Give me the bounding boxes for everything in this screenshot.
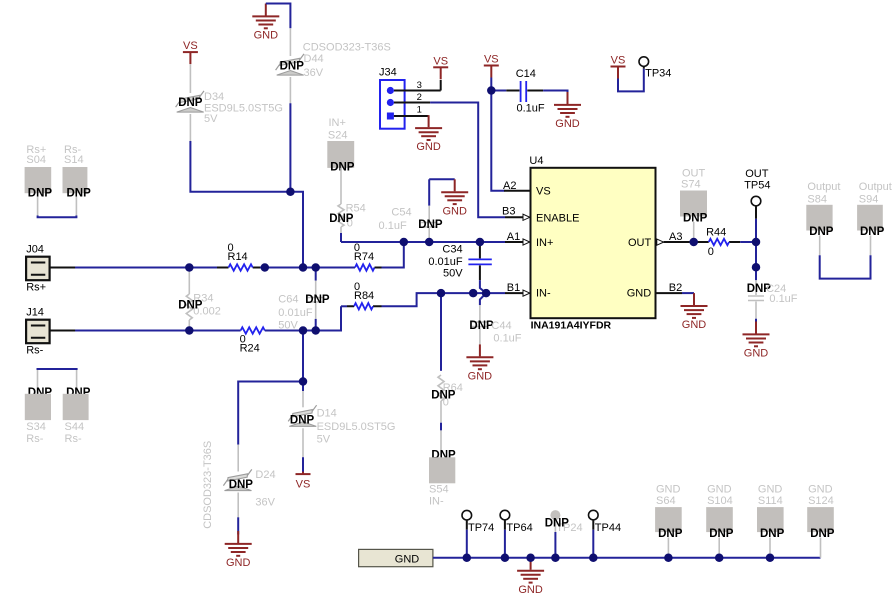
svg-text:0.01uF: 0.01uF <box>428 256 463 268</box>
svg-text:J34: J34 <box>379 66 397 78</box>
svg-text:INA191A4IYFDR: INA191A4IYFDR <box>531 319 612 331</box>
junction dot Rs- row / D-net column <box>299 326 308 335</box>
svg-text:OUT: OUT <box>745 168 769 180</box>
svg-text:TP64: TP64 <box>506 522 532 534</box>
resistor R44 (0) <box>694 227 741 259</box>
svg-text:R74: R74 <box>354 251 374 263</box>
svg-text:0.1uF: 0.1uF <box>769 293 797 305</box>
wire S34-S44 <box>38 369 77 370</box>
svg-text:S104: S104 <box>707 495 733 507</box>
wire VS to TP34 <box>618 69 644 92</box>
svg-text:GND: GND <box>707 484 732 496</box>
capacitor C34 0.01uF 50V <box>428 242 491 280</box>
junction dot D-net <box>299 377 308 386</box>
svg-text:S84: S84 <box>807 194 827 206</box>
svg-text:GND: GND <box>758 484 783 496</box>
connector J04 <box>26 244 49 294</box>
junction dot bus TP74 <box>463 554 472 563</box>
pad S04 (DNP) <box>25 144 53 216</box>
svg-text:5V: 5V <box>317 434 331 446</box>
pad S84 Output (DNP) <box>806 181 840 255</box>
svg-text:GND: GND <box>395 554 420 566</box>
svg-text:Rs-: Rs- <box>26 344 43 356</box>
wire VS down to A2 <box>491 78 504 191</box>
svg-text:Output: Output <box>807 181 840 193</box>
svg-text:U4: U4 <box>529 155 543 167</box>
pad S64 GND (DNP) <box>655 484 683 558</box>
wire Rs+ row left <box>75 267 217 269</box>
svg-text:Rs-: Rs- <box>26 433 43 445</box>
svg-text:GND: GND <box>656 484 681 496</box>
svg-text:50V: 50V <box>278 319 298 331</box>
resistor R34 0.002 (DNP) <box>178 268 221 331</box>
connector J14 <box>26 307 49 357</box>
svg-text:S54: S54 <box>429 484 449 496</box>
svg-text:C44: C44 <box>491 320 511 332</box>
svg-text:D24: D24 <box>255 469 275 481</box>
wire S04-S14 <box>38 216 77 218</box>
svg-text:DNP: DNP <box>290 415 315 427</box>
svg-text:IN-: IN- <box>536 288 551 300</box>
ground (top, net of D44) <box>252 4 279 42</box>
junction dot bus GND <box>526 554 535 563</box>
svg-text:TP34: TP34 <box>645 68 671 80</box>
test point TP64 <box>500 510 533 558</box>
resistor R84 (0) <box>341 281 382 310</box>
svg-text:3: 3 <box>417 80 422 91</box>
wire D44 bottom to junction <box>289 103 291 191</box>
svg-text:R24: R24 <box>240 343 260 355</box>
svg-text:0.1uF: 0.1uF <box>517 103 545 115</box>
svg-text:DNP: DNP <box>28 188 53 200</box>
test point TP24 (DNP) <box>545 510 583 558</box>
svg-text:OUT: OUT <box>628 237 652 249</box>
svg-text:Rs-: Rs- <box>65 433 82 445</box>
junction dot A1 row / R74 <box>400 238 409 247</box>
svg-text:GND: GND <box>808 484 833 496</box>
junction dot bus S114 <box>766 554 775 563</box>
svg-text:DNP: DNP <box>809 226 834 238</box>
svg-text:IN+: IN+ <box>329 117 346 129</box>
pad S34 (DNP) <box>25 370 53 445</box>
test point TP74 <box>462 510 494 557</box>
svg-text:DNP: DNP <box>860 226 885 238</box>
power port VS (A2/C14) <box>484 54 499 78</box>
ground (C44) <box>466 344 493 382</box>
svg-text:DNP: DNP <box>658 528 683 540</box>
svg-text:S74: S74 <box>681 179 701 191</box>
wire J14 stub <box>50 330 76 332</box>
ground (bus) <box>517 558 544 596</box>
power port VS (D14, flipped) <box>296 472 311 491</box>
svg-text:DNP: DNP <box>545 517 570 529</box>
junction dot Rs- row / R34 <box>185 326 194 335</box>
junction dot VS / C14 <box>487 86 496 95</box>
svg-text:S94: S94 <box>859 194 879 206</box>
svg-text:GND: GND <box>627 288 652 300</box>
svg-text:R44: R44 <box>706 227 726 239</box>
pad S124 GND (DNP) <box>807 484 835 558</box>
junction dot B1 row / C34 <box>469 289 478 298</box>
svg-text:TP54: TP54 <box>744 180 770 192</box>
svg-text:OUT: OUT <box>682 167 706 179</box>
svg-text:DNP: DNP <box>469 320 494 332</box>
svg-text:S04: S04 <box>26 154 46 166</box>
svg-text:1: 1 <box>417 105 422 116</box>
ground (C24) <box>743 322 770 360</box>
wire D24 to GND <box>237 517 239 534</box>
wire TP54 column <box>755 219 757 280</box>
power port VS (J34 pin3) <box>433 55 448 79</box>
pad S14 (DNP) <box>63 144 92 216</box>
capacitor C54 0.1uF (DNP) <box>379 179 443 242</box>
test point TP54 <box>744 168 770 219</box>
svg-text:ESD9L5.0ST5G: ESD9L5.0ST5G <box>317 421 396 433</box>
svg-text:36V: 36V <box>304 67 324 79</box>
wire D-net horizontal + D24 branch <box>238 382 303 445</box>
diode D34 ESD9L5.0ST5G (DNP) <box>176 64 283 141</box>
wire top GND to D44 <box>266 4 291 29</box>
junction dot A3 / S74 <box>689 238 698 247</box>
pad S54 IN- (DNP) <box>429 430 456 507</box>
junction dot A1 row / C34 <box>476 238 485 247</box>
wire D-net down to D14 <box>302 382 304 392</box>
junction dot B1 row / R64 <box>437 289 446 298</box>
capacitor C14 0.1uF <box>491 68 545 115</box>
svg-text:50V: 50V <box>443 268 463 280</box>
wire GND bus <box>433 557 821 559</box>
wire R54 bottom to A1 row <box>340 233 342 242</box>
svg-text:S64: S64 <box>656 495 676 507</box>
svg-text:5V: 5V <box>204 113 218 125</box>
wire R64 to S54 <box>440 423 442 431</box>
svg-text:D14: D14 <box>317 408 337 420</box>
wire Rs- row left <box>75 330 241 332</box>
svg-text:0: 0 <box>708 246 714 258</box>
connector J34 <box>379 66 405 128</box>
svg-text:DNP: DNP <box>178 299 203 311</box>
pad S114 GND (DNP) <box>757 484 785 558</box>
svg-text:TP44: TP44 <box>595 522 621 534</box>
power port VS (D34) <box>183 40 198 64</box>
wire C34 bottom jog to B1 row <box>480 280 486 293</box>
svg-text:0.01uF: 0.01uF <box>278 307 313 319</box>
wire A1 row <box>341 241 505 243</box>
svg-text:S124: S124 <box>808 495 834 507</box>
wire R84 to B1 row <box>382 293 506 306</box>
wire R74 to A1 row <box>382 242 404 268</box>
junction dot bus TP44 <box>589 554 598 563</box>
junction dot D34/D44 net <box>286 187 295 196</box>
junction dot bus TP24 <box>551 554 560 563</box>
svg-text:Output: Output <box>859 181 892 193</box>
resistor R74 (0) <box>354 242 382 271</box>
junction dot B1 row / C44 <box>482 289 491 298</box>
svg-text:C54: C54 <box>391 207 411 219</box>
junction dot OUT / TP54 <box>752 238 761 247</box>
ground (C54) <box>441 179 468 217</box>
pad S24 IN+ (DNP) <box>327 117 355 174</box>
diode D24 CDSOD323-T36S (DNP) <box>202 441 276 529</box>
svg-text:Rs+: Rs+ <box>26 281 46 293</box>
svg-text:TP74: TP74 <box>468 522 494 534</box>
capacitor C64 0.01uF (DNP) <box>278 268 330 332</box>
junction dot bus S104 <box>715 554 724 563</box>
svg-text:S14: S14 <box>64 154 84 166</box>
wire Rs- row down to D-net junction <box>302 331 304 382</box>
svg-text:S44: S44 <box>65 421 85 433</box>
wire Rs- row right <box>265 306 341 330</box>
svg-text:DNP: DNP <box>329 213 354 225</box>
wire D34 bottom to IN+ column <box>190 141 303 268</box>
svg-text:B3: B3 <box>502 206 515 218</box>
ground (D24) <box>225 531 252 569</box>
junction dot Rs- row / C64 <box>311 326 320 335</box>
wire C24 to GND <box>755 319 757 324</box>
svg-text:S24: S24 <box>328 130 348 142</box>
junction dot bus TP64 <box>501 554 510 563</box>
resistor R64 0 (DNP) <box>431 375 463 423</box>
junction dot bus S64 <box>664 554 673 563</box>
svg-text:S34: S34 <box>26 421 46 433</box>
capacitor C24 0.1uF (DNP) <box>747 280 798 319</box>
svg-text:DNP: DNP <box>760 528 785 540</box>
wire Rs+ row mid <box>260 267 355 269</box>
svg-text:DNP: DNP <box>229 479 254 491</box>
pad S104 GND (DNP) <box>706 484 734 558</box>
pad S44 (DNP) <box>63 370 91 445</box>
svg-text:2: 2 <box>417 92 422 103</box>
svg-text:36V: 36V <box>255 497 275 509</box>
svg-text:DNP: DNP <box>418 219 443 231</box>
svg-text:VS: VS <box>536 185 551 197</box>
svg-text:CDSOD323-T36S: CDSOD323-T36S <box>202 441 214 529</box>
svg-text:C64: C64 <box>278 294 298 306</box>
ground (B2) <box>681 293 708 331</box>
junction dot Rs+ row / IN+ column <box>299 263 308 272</box>
svg-text:DNP: DNP <box>683 213 708 225</box>
svg-text:R84: R84 <box>354 290 374 302</box>
svg-text:DNP: DNP <box>810 528 835 540</box>
wire C14 to GND <box>543 91 567 103</box>
svg-text:ENABLE: ENABLE <box>536 212 579 224</box>
test point TP44 <box>589 510 622 558</box>
svg-text:J04: J04 <box>26 244 44 256</box>
wire B1 dot down to R64 <box>440 293 442 371</box>
junction dot Rs+ row mid <box>261 263 270 272</box>
svg-text:DNP: DNP <box>709 528 734 540</box>
test point TP34 <box>639 57 671 80</box>
pad S74 OUT (DNP) <box>680 167 708 241</box>
ground (C14) <box>554 92 581 130</box>
svg-text:C14: C14 <box>516 68 536 80</box>
junction dot A1 row / C54 <box>425 238 434 247</box>
resistor R14 (0) <box>217 242 260 271</box>
pad S94 Output (DNP) <box>857 181 892 255</box>
svg-text:0.1uF: 0.1uF <box>379 220 407 232</box>
wire J04 stub <box>50 267 76 269</box>
svg-text:S114: S114 <box>758 495 783 507</box>
diode D44 CDSOD323-T36S (DNP) <box>276 28 391 103</box>
svg-text:DNP: DNP <box>330 162 355 174</box>
junction dot Rs+ row / C64 <box>311 263 320 272</box>
resistor R24 (0) <box>240 327 265 354</box>
junction dot OUT column lower <box>752 263 761 272</box>
capacitor C44 0.1uF (DNP) <box>469 293 521 345</box>
svg-text:DNP: DNP <box>431 390 456 402</box>
op-amp U4 INA191A4IYFDR <box>529 155 655 331</box>
svg-text:CDSOD323-T36S: CDSOD323-T36S <box>303 41 391 53</box>
wire D14 to VS <box>302 457 304 472</box>
svg-text:IN-: IN- <box>429 495 444 507</box>
resistor R54 0 (DNP) <box>329 168 366 233</box>
wire R44 to TP54 column <box>740 241 756 243</box>
wire C54 to GND <box>429 178 455 180</box>
power port VS (TP34) <box>611 55 626 79</box>
svg-text:IN+: IN+ <box>536 237 553 249</box>
diode D14 ESD9L5.0ST5G (DNP) <box>288 391 395 457</box>
wire S84-S94 <box>820 255 871 278</box>
ground (J34 pin1) <box>415 115 442 153</box>
svg-text:R14: R14 <box>228 251 248 263</box>
wire pin2 to B3 <box>430 103 505 218</box>
svg-text:DNP: DNP <box>280 61 305 73</box>
junction dot Rs+ row / R34 <box>185 263 194 272</box>
svg-text:C34: C34 <box>442 244 462 256</box>
net label GND <box>359 549 433 566</box>
svg-text:0.1uF: 0.1uF <box>493 333 521 345</box>
svg-text:DNP: DNP <box>305 294 330 306</box>
svg-text:D44: D44 <box>304 53 324 65</box>
svg-text:J14: J14 <box>26 307 44 319</box>
svg-text:DNP: DNP <box>67 188 92 200</box>
svg-text:DNP: DNP <box>178 97 203 109</box>
